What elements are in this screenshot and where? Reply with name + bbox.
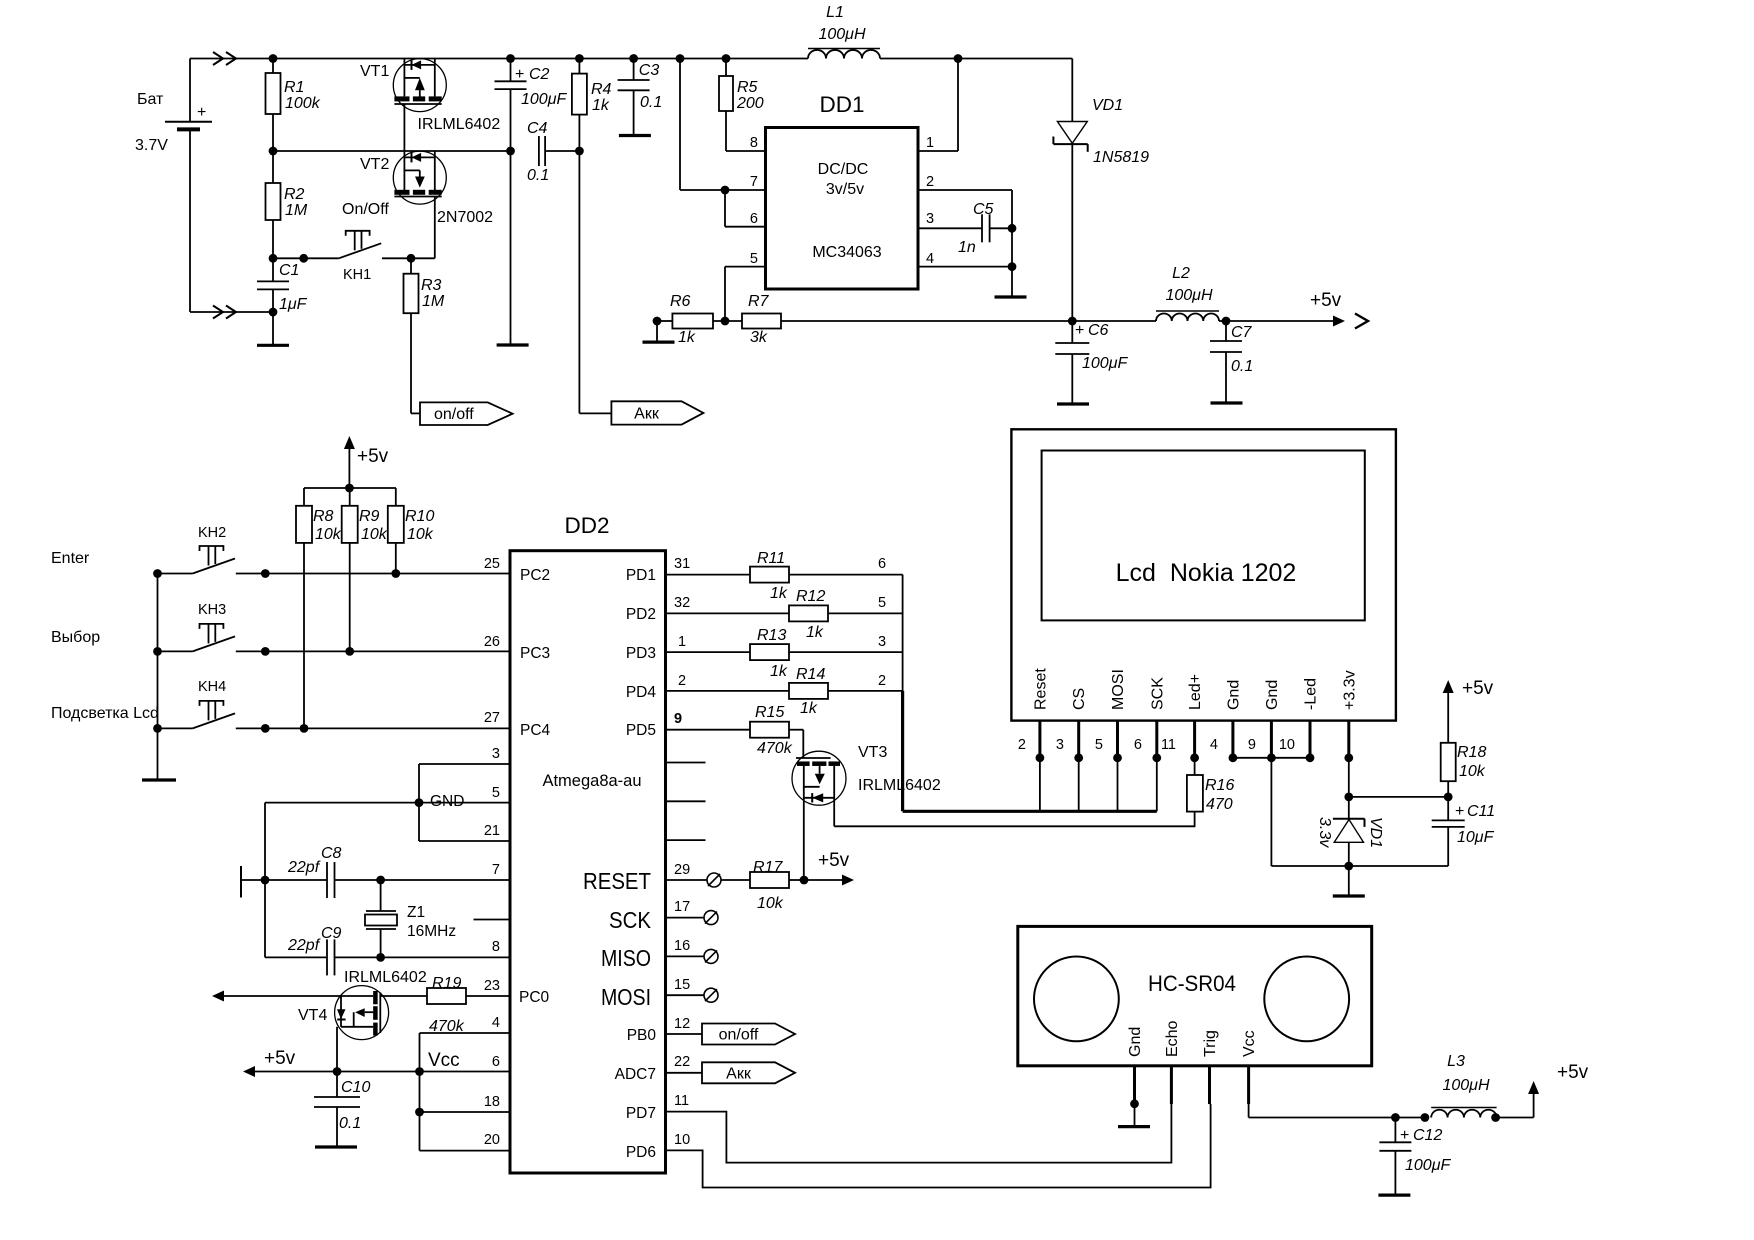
svg-text:Lcd Nokia 1202: Lcd Nokia 1202: [1116, 559, 1297, 587]
resistor R19 470k: [380, 975, 510, 1035]
svg-text:3v/5v: 3v/5v: [826, 181, 864, 198]
svg-text:11: 11: [1161, 737, 1176, 753]
svg-text:VT1: VT1: [360, 63, 389, 80]
svg-text:0.1: 0.1: [640, 94, 662, 111]
svg-text:0.1: 0.1: [339, 1115, 361, 1132]
resistor R14 1k: [666, 666, 903, 717]
svg-text:R4: R4: [591, 81, 612, 98]
resistor R18 10k: [1441, 743, 1487, 797]
svg-text:R11: R11: [757, 550, 785, 567]
ground at keys: [142, 778, 176, 781]
svg-text:5: 5: [492, 785, 500, 801]
svg-text:Акк: Акк: [634, 405, 660, 422]
svg-text:R17: R17: [753, 859, 783, 876]
svg-text:SCK: SCK: [609, 907, 652, 933]
svg-text:31: 31: [674, 556, 690, 572]
capacitor C10 0.1: [314, 1067, 370, 1147]
svg-text:10k: 10k: [315, 526, 342, 543]
test point MISO: [666, 949, 719, 963]
DD2 left pin numbers: [484, 556, 500, 1148]
+5v output arrow: [1226, 290, 1368, 329]
DD1 pin numbers right: [926, 135, 934, 267]
svg-text:3.7V: 3.7V: [135, 137, 168, 154]
diode VD1 1N5819: [1053, 59, 1149, 322]
LCD signal risers: [1040, 758, 1157, 812]
DD2 right pin names: [583, 567, 656, 1161]
svg-text:100k: 100k: [285, 95, 321, 112]
svg-text:12: 12: [674, 1016, 690, 1032]
svg-text:R1: R1: [284, 79, 304, 96]
svg-text:11: 11: [674, 1093, 689, 1109]
svg-text:PD1: PD1: [626, 567, 656, 584]
svg-text:25: 25: [484, 556, 500, 572]
svg-text:1: 1: [678, 634, 686, 650]
lcd data bus vertical: [902, 575, 904, 812]
svg-text:MOSI: MOSI: [1110, 669, 1127, 710]
svg-text:R19: R19: [432, 975, 461, 992]
svg-text:+5v: +5v: [1310, 290, 1342, 311]
node gate wire y151: [269, 147, 511, 156]
resistor R11 1k: [666, 550, 903, 602]
svg-text:Trig: Trig: [1202, 1030, 1219, 1057]
wire VT2 source to KH1: [411, 197, 435, 259]
svg-text:1k: 1k: [592, 97, 610, 114]
svg-text:6: 6: [878, 556, 886, 572]
label DD2: [564, 513, 609, 538]
svg-text:C11: C11: [1467, 803, 1495, 820]
capacitor C4 0.1: [506, 120, 579, 184]
+5v rail arrow left: [243, 1048, 510, 1077]
svg-text:32: 32: [674, 595, 690, 611]
svg-text:R6: R6: [670, 293, 691, 310]
resistor R12 1k: [666, 588, 903, 641]
svg-text:6: 6: [750, 211, 758, 227]
svg-text:1k: 1k: [678, 329, 696, 346]
svg-text:2: 2: [926, 174, 934, 190]
HC-SR04 Vcc pin: [1249, 1066, 1400, 1122]
svg-text:1N5819: 1N5819: [1093, 149, 1149, 166]
svg-text:Бат: Бат: [137, 91, 164, 108]
ground at R6: [643, 341, 675, 344]
svg-text:L2: L2: [1172, 265, 1190, 282]
svg-text:1k: 1k: [806, 624, 824, 641]
resistor R13 1k: [666, 627, 903, 680]
chip DD1 MC34063: [766, 92, 919, 289]
svg-text:3: 3: [878, 634, 886, 650]
svg-text:CS: CS: [1071, 688, 1088, 710]
svg-text:4: 4: [492, 1015, 500, 1031]
svg-text:R18: R18: [1457, 744, 1486, 761]
label Lcd Nokia 1202: [1116, 559, 1297, 587]
svg-text:22pf: 22pf: [287, 937, 321, 954]
capacitor C9 22pf: [265, 925, 510, 975]
svg-text:Vcc: Vcc: [428, 1050, 460, 1071]
flag on/off PB0: [666, 1024, 796, 1045]
svg-text:Gnd: Gnd: [1264, 680, 1281, 710]
svg-text:17: 17: [674, 899, 690, 915]
transistor VT2 2N7002: [360, 151, 493, 226]
svg-text:200: 200: [736, 95, 764, 112]
wire battery minus rail: [190, 311, 273, 313]
svg-text:VD1: VD1: [1367, 817, 1384, 848]
wire PD7 to Echo: [666, 1104, 1172, 1163]
lcd data bus horizontal: [903, 810, 1157, 813]
svg-text:10k: 10k: [757, 895, 784, 912]
svg-text:10: 10: [1279, 737, 1295, 753]
svg-text:MISO: MISO: [601, 945, 651, 971]
label Atmega8a-au: [542, 772, 641, 790]
svg-text:4: 4: [1210, 737, 1218, 753]
ground at HC-SR04: [1118, 1125, 1150, 1128]
svg-text:IRLML6402: IRLML6402: [858, 777, 941, 794]
svg-text:R5: R5: [737, 79, 758, 96]
svg-text:7: 7: [492, 862, 500, 878]
svg-text:ADC7: ADC7: [615, 1066, 656, 1083]
svg-text:C5: C5: [973, 201, 994, 218]
svg-text:+: +: [197, 104, 206, 121]
svg-text:1M: 1M: [422, 293, 445, 310]
svg-text:1M: 1M: [285, 202, 308, 219]
svg-text:PC2: PC2: [520, 567, 550, 584]
DD1 pin numbers left: [750, 135, 758, 267]
svg-text:2: 2: [878, 673, 886, 689]
svg-text:PC4: PC4: [520, 722, 551, 739]
ground at C3: [619, 134, 651, 137]
svg-text:1: 1: [926, 135, 934, 151]
resistor R7 3k: [742, 293, 1072, 346]
svg-text:DD1: DD1: [819, 92, 864, 117]
svg-text:DC/DC: DC/DC: [818, 161, 869, 178]
crystal load terminal: [241, 866, 269, 898]
resistor R16 470 Led+: [1187, 758, 1235, 827]
svg-text:Vcc: Vcc: [1241, 1030, 1258, 1057]
DD2 xtal stub: [474, 919, 511, 921]
svg-text:8: 8: [750, 135, 758, 151]
capacitor C12 100uF: [1379, 1118, 1451, 1196]
svg-text:100μF: 100μF: [521, 91, 567, 108]
label Enter: [51, 550, 90, 567]
svg-text:3: 3: [1056, 737, 1064, 753]
svg-text:10: 10: [674, 1132, 690, 1148]
wire Gnd2 down to zener gnd: [1271, 758, 1448, 866]
DD2 right stubs: [666, 763, 706, 841]
svg-text:IRLML6402: IRLML6402: [418, 116, 501, 133]
svg-text:PD5: PD5: [626, 722, 656, 739]
capacitor C11 10uF: [1432, 797, 1495, 866]
svg-text:C1: C1: [279, 262, 299, 279]
svg-text:10k: 10k: [1459, 763, 1486, 780]
svg-text:Enter: Enter: [51, 550, 90, 567]
svg-text:HC-SR04: HC-SR04: [1148, 971, 1236, 996]
svg-text:L1: L1: [826, 4, 844, 21]
svg-text:R15: R15: [755, 704, 784, 721]
chip DD2 Atmega8a-au box: [510, 551, 666, 1173]
svg-text:PD3: PD3: [626, 645, 656, 662]
LCD pin numbers: [1018, 737, 1295, 753]
svg-text:KH2: KH2: [198, 525, 226, 541]
svg-text:23: 23: [484, 978, 500, 994]
svg-text:C3: C3: [639, 62, 660, 79]
ground at C6: [1057, 402, 1089, 405]
svg-text:22: 22: [674, 1054, 690, 1070]
svg-text:Gnd: Gnd: [1225, 680, 1242, 710]
svg-text:R8: R8: [313, 508, 334, 525]
inductor L3 100uH: [1395, 1053, 1533, 1122]
flag on/off from KH1 R3: [411, 402, 513, 425]
flag Akk ADC7: [666, 1062, 796, 1083]
svg-text:VT2: VT2: [360, 156, 389, 173]
svg-text:6: 6: [1134, 737, 1142, 753]
crystal Z1 16MHz: [365, 876, 456, 962]
svg-text:KH4: KH4: [198, 679, 226, 695]
flag Akk from R4: [579, 401, 703, 424]
wire PD6 to Trig: [666, 1104, 1211, 1188]
chevron arrows on battery minus feed: [213, 306, 236, 319]
svg-text:VT3: VT3: [858, 744, 887, 761]
svg-text:1μF: 1μF: [279, 296, 308, 313]
resistor R17 10k RESET pullup: [666, 850, 855, 912]
svg-text:Reset: Reset: [1032, 668, 1049, 710]
switch KH1 On/Off: [273, 201, 415, 283]
resistor R5 200: [719, 54, 766, 151]
svg-text:C8: C8: [321, 845, 342, 862]
svg-text:6: 6: [492, 1054, 500, 1070]
svg-text:R2: R2: [284, 186, 305, 203]
svg-text:PD4: PD4: [626, 684, 657, 701]
keys common ground bus: [157, 574, 159, 781]
svg-text:PB0: PB0: [627, 1027, 657, 1044]
zener VD1 3.3v: [1316, 817, 1384, 896]
ground at C5: [995, 295, 1027, 298]
resistor R1 100k: [266, 54, 321, 151]
GND bracket pins 3 5 21: [415, 764, 510, 841]
HC-SR04 Echo pin: [1170, 1066, 1173, 1104]
svg-text:DD2: DD2: [564, 513, 609, 538]
svg-text:1k: 1k: [800, 700, 818, 717]
wire VT3 drain to R16: [834, 825, 1195, 827]
capacitor C1 1uF: [257, 254, 308, 345]
svg-text:100μH: 100μH: [818, 26, 865, 43]
svg-text:PD2: PD2: [626, 606, 656, 623]
resistor R3 1M: [404, 258, 445, 413]
svg-text:+: +: [1455, 803, 1464, 820]
HC-SR04 Trig pin: [1210, 1066, 1211, 1104]
LCD pins and rotated labels: [1032, 668, 1358, 763]
svg-text:MC34063: MC34063: [812, 244, 881, 261]
svg-text:R13: R13: [757, 627, 786, 644]
DD1 pin6 wire: [725, 190, 766, 227]
svg-text:5: 5: [878, 595, 886, 611]
svg-text:2N7002: 2N7002: [437, 209, 493, 226]
test point MOSI: [666, 988, 719, 1002]
svg-text:C6: C6: [1088, 322, 1109, 339]
svg-text:PD6: PD6: [626, 1144, 656, 1161]
wire PC2 line: [265, 573, 510, 575]
svg-text:SCK: SCK: [1149, 677, 1166, 710]
svg-text:3: 3: [926, 211, 934, 227]
wire PC4 line: [265, 727, 510, 729]
wire Gnd -Led link: [1233, 757, 1310, 759]
+5v arrow L3: [1528, 1062, 1589, 1118]
svg-text:On/Off: On/Off: [342, 201, 389, 218]
svg-text:KH1: KH1: [343, 267, 371, 283]
svg-text:Led+: Led+: [1187, 674, 1204, 710]
node C6 junction: [1068, 317, 1077, 326]
svg-text:22pf: 22pf: [287, 859, 321, 876]
capacitor C8 22pf: [265, 845, 510, 898]
svg-text:MOSI: MOSI: [601, 984, 651, 1010]
svg-text:5: 5: [750, 251, 758, 267]
svg-text:Подсветка Lcd: Подсветка Lcd: [51, 705, 159, 722]
label Vybor: [51, 629, 100, 646]
svg-text:0.1: 0.1: [1231, 358, 1253, 375]
svg-text:PD7: PD7: [626, 1105, 656, 1122]
svg-text:0.1: 0.1: [527, 167, 549, 184]
ground at C1: [257, 344, 289, 347]
svg-text:Акк: Акк: [726, 1065, 752, 1082]
resistor R6 1k: [653, 293, 742, 346]
svg-text:26: 26: [484, 634, 500, 650]
capacitor C6 100uF: [1055, 321, 1128, 404]
svg-text:+5v: +5v: [818, 850, 850, 871]
GND wire to crystal ground: [265, 803, 419, 958]
battery BAT 3.7V: [135, 59, 212, 313]
svg-text:R16: R16: [1205, 777, 1234, 794]
HC-SR04 box: [1018, 926, 1372, 1065]
node DD1 pin5 junction: [721, 317, 730, 326]
svg-text:C9: C9: [321, 925, 342, 942]
svg-text:C7: C7: [1231, 324, 1253, 341]
svg-text:100μH: 100μH: [1442, 1077, 1489, 1094]
svg-text:16: 16: [674, 938, 690, 954]
svg-text:Выбор: Выбор: [51, 629, 100, 646]
svg-text:on/off: on/off: [719, 1027, 759, 1044]
svg-text:3: 3: [492, 746, 500, 762]
svg-text:8: 8: [492, 939, 500, 955]
DD2 right pin numbers: [674, 556, 690, 1148]
switch KH2 Enter: [153, 525, 270, 578]
svg-text:Atmega8a-au: Atmega8a-au: [542, 772, 641, 790]
DD1 pin4 wire: [918, 228, 1016, 297]
svg-text:470k: 470k: [757, 740, 793, 757]
svg-text:1n: 1n: [958, 239, 976, 256]
svg-text:470: 470: [1206, 796, 1233, 813]
svg-text:18: 18: [484, 1094, 500, 1110]
Vcc bracket pins 4 6 18 20: [415, 1033, 510, 1151]
svg-text:+5v: +5v: [357, 446, 389, 467]
ground at C7: [1211, 401, 1243, 404]
svg-text:R7: R7: [748, 293, 770, 310]
wire +3.3v down: [1344, 758, 1452, 819]
svg-text:2: 2: [678, 673, 686, 689]
svg-text:100μH: 100μH: [1165, 287, 1212, 304]
svg-text:VD1: VD1: [1092, 97, 1123, 114]
svg-text:100μF: 100μF: [1405, 1157, 1451, 1174]
svg-text:10μF: 10μF: [1457, 829, 1495, 846]
svg-text:100μF: 100μF: [1082, 355, 1128, 372]
wire PC0 arrow left: [212, 991, 341, 1002]
label Podsvetka: [51, 705, 159, 722]
svg-text:VT4: VT4: [298, 1007, 327, 1024]
DD1 pin2 wire: [918, 190, 1012, 228]
wire to DD1 pin7: [676, 54, 766, 194]
resistor R8 10k: [296, 506, 342, 733]
svg-text:15: 15: [674, 977, 690, 993]
switch KH4 Podsvetka: [153, 679, 270, 733]
capacitor C3 0.1: [618, 54, 663, 135]
wire battery top rail to corner: [190, 58, 1072, 60]
svg-text:3.3v: 3.3v: [1316, 817, 1333, 848]
svg-text:1k: 1k: [770, 585, 788, 602]
svg-text:Gnd: Gnd: [1127, 1027, 1144, 1057]
transistor VT3 IRLML6402: [792, 744, 941, 880]
resistor R10 10k: [388, 506, 435, 578]
svg-text:27: 27: [484, 710, 500, 726]
bus R8 R9 R10 tops: [304, 484, 396, 506]
svg-text:+5v: +5v: [264, 1048, 296, 1069]
svg-text:+3.3v: +3.3v: [1341, 670, 1358, 710]
svg-text:4: 4: [926, 251, 934, 267]
svg-text:PC3: PC3: [520, 645, 550, 662]
inductor L2 100uH: [1072, 265, 1226, 321]
svg-text:R12: R12: [796, 588, 825, 605]
svg-text:+5v: +5v: [1462, 678, 1494, 699]
svg-text:C12: C12: [1413, 1127, 1442, 1144]
svg-text:20: 20: [484, 1132, 500, 1148]
svg-text:+: +: [515, 66, 524, 83]
ground at C2: [497, 343, 529, 346]
LCD Nokia 1202 box: [1011, 429, 1396, 720]
resistor R9 10k: [342, 506, 388, 656]
svg-text:5: 5: [1095, 737, 1103, 753]
HC-SR04 Gnd pin: [1130, 1066, 1139, 1127]
DD2 left pin names: [519, 567, 551, 1006]
svg-text:+5v: +5v: [1557, 1062, 1589, 1083]
svg-text:IRLML6402: IRLML6402: [344, 969, 427, 986]
svg-text:9: 9: [1248, 737, 1256, 753]
+5v arrow R18: [1443, 678, 1494, 743]
transistor VT4 IRLML6402: [298, 969, 427, 1072]
svg-text:+: +: [1400, 1127, 1409, 1144]
svg-text:RESET: RESET: [583, 868, 651, 894]
transistor VT1 IRLML6402: [360, 59, 500, 152]
svg-text:L3: L3: [1447, 1053, 1465, 1070]
wire PC3 line: [265, 650, 510, 652]
switch KH3 Vybor: [153, 602, 270, 656]
capacitor C7 0.1: [1210, 317, 1253, 403]
resistor R2 1M: [266, 151, 308, 258]
svg-text:C2: C2: [529, 66, 550, 83]
svg-text:16MHz: 16MHz: [407, 923, 456, 940]
svg-text:10k: 10k: [361, 526, 388, 543]
svg-text:R14: R14: [796, 666, 825, 683]
inductor L1 100uH: [808, 4, 880, 59]
svg-text:-Led: -Led: [1303, 678, 1320, 710]
svg-text:Echo: Echo: [1164, 1020, 1181, 1057]
svg-text:R3: R3: [421, 277, 442, 294]
resistor R15 470k: [666, 704, 804, 758]
svg-text:R10: R10: [405, 508, 434, 525]
DD1 pin5 wire: [725, 267, 766, 321]
ground at C12: [1378, 1193, 1410, 1196]
capacitor C5 1n: [918, 201, 1016, 256]
HC-SR04 rotated pin labels: [1127, 1020, 1258, 1057]
svg-text:21: 21: [484, 823, 500, 839]
svg-text:7: 7: [750, 174, 758, 190]
+5v arrow for keys: [344, 436, 389, 488]
svg-text:9: 9: [674, 711, 682, 727]
ground at C10: [315, 1145, 357, 1148]
